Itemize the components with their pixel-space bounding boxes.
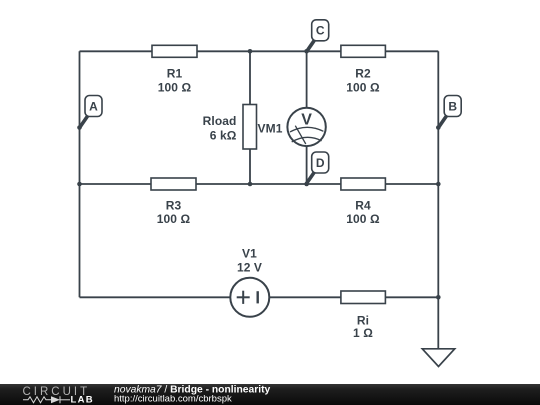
svg-text:R4: R4: [355, 198, 371, 212]
svg-text:1 Ω: 1 Ω: [353, 326, 373, 340]
junction node D: [304, 182, 309, 187]
junction top Rload: [248, 49, 253, 54]
svg-text:R2: R2: [355, 66, 371, 80]
junction mid left: [77, 182, 82, 187]
svg-text:V1: V1: [242, 247, 257, 261]
svg-text:R1: R1: [167, 66, 183, 80]
svg-text:Rload: Rload: [203, 114, 237, 128]
svg-text:V: V: [301, 112, 312, 129]
resistor Ri: [341, 291, 386, 304]
junction mid Rload: [248, 182, 253, 187]
logo resistor-diode symbol: [23, 396, 70, 403]
wire ground stub: [437, 297, 439, 349]
svg-text:VM1: VM1: [258, 122, 283, 136]
svg-text:6 kΩ: 6 kΩ: [210, 128, 237, 142]
ground: [422, 349, 454, 367]
resistor R2: [341, 45, 386, 57]
svg-text:100 Ω: 100 Ω: [158, 80, 192, 94]
junction node C: [304, 49, 309, 54]
resistor R4: [341, 178, 386, 190]
junction bottom right: [436, 295, 441, 300]
svg-text:B: B: [448, 99, 457, 113]
svg-text:C: C: [316, 24, 325, 38]
svg-text:A: A: [89, 99, 98, 113]
junction node A: [77, 125, 82, 130]
node C callout: [307, 20, 329, 51]
node B callout: [439, 96, 461, 128]
resistor Rload: [243, 105, 257, 150]
junction node B: [436, 125, 441, 130]
wire top net A-C-B: [80, 50, 439, 52]
footer bar: [0, 384, 540, 405]
svg-text:http://circuitlab.com/cbrbspk: http://circuitlab.com/cbrbspk: [114, 394, 232, 405]
svg-text:LAB: LAB: [71, 395, 94, 405]
svg-text:100 Ω: 100 Ω: [157, 212, 191, 226]
svg-text:R3: R3: [166, 198, 182, 212]
voltage source V1: [230, 278, 269, 317]
junction mid right: [436, 182, 441, 187]
resistor R1: [152, 45, 197, 57]
wire bottom horizontal: [80, 296, 439, 298]
wire right vertical (node B): [437, 51, 439, 297]
svg-text:12 V: 12 V: [237, 260, 262, 274]
resistor R3: [151, 178, 196, 190]
wire left vertical (node A): [79, 51, 81, 297]
voltmeter VM1: [287, 108, 325, 146]
svg-text:100 Ω: 100 Ω: [346, 212, 380, 226]
wire VM1 branch: [306, 51, 308, 184]
svg-text:100 Ω: 100 Ω: [346, 80, 380, 94]
node A callout: [80, 96, 102, 128]
svg-text:D: D: [316, 156, 325, 170]
wire middle horizontal (node D row): [80, 183, 439, 185]
wire Rload branch: [249, 51, 251, 184]
node D callout: [306, 152, 328, 184]
